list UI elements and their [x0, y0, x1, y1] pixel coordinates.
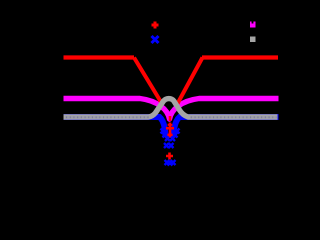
- gray curve with center peak: [64, 99, 278, 117]
- blue dashed mottling over gray flat line left: [66, 116, 149, 118]
- blue dashed mottling over gray flat line right: [191, 116, 277, 118]
- red center column segment 1: [169, 116, 172, 121]
- red small plus at column tip: [167, 133, 172, 138]
- red wide bar marker pair: [166, 127, 174, 130]
- blue x markers flanking center: [161, 129, 180, 142]
- legend magenta square marker: [250, 22, 256, 28]
- legend red plus marker: [152, 22, 159, 29]
- red left diagonal over magenta: [134, 58, 163, 105]
- red curve left flat segment: [64, 55, 135, 59]
- red center column segment 3: [169, 128, 172, 134]
- legend magenta square notch: [252, 22, 254, 24]
- blue x cluster deepest: [165, 160, 176, 166]
- bluish solid mid overlay on gray flat line left: [65, 116, 149, 118]
- red plus marker deep center: [166, 153, 173, 160]
- blue curve left flat and funnel left arm: [64, 117, 166, 137]
- red right diagonal over magenta: [177, 58, 203, 105]
- red curve right flat segment: [202, 55, 278, 59]
- blue xx pair below funnel: [164, 143, 174, 148]
- blue curve right flat and funnel right arm: [174, 117, 279, 137]
- legend blue x marker: [152, 36, 159, 43]
- red center column segment 2 with small arms: [169, 123, 172, 128]
- magenta curve with center notch: [64, 99, 279, 120]
- bluish solid mid overlay on gray flat line right: [190, 116, 277, 118]
- legend gray square marker: [250, 37, 256, 43]
